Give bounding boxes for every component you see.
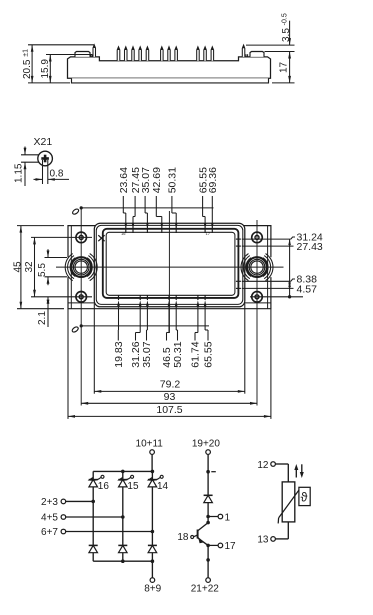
right screw column line [256, 220, 258, 406]
label 16 [98, 481, 110, 492]
svg-text:10+11: 10+11 [136, 438, 164, 449]
svg-text:35.07: 35.07 [140, 167, 152, 193]
svg-text:18: 18 [177, 532, 189, 543]
svg-text:69.36: 69.36 [207, 167, 219, 193]
node top rail junction c3 [151, 470, 155, 474]
dimension 45 (flange height) [12, 226, 64, 309]
mounting boss arcs left [65, 254, 97, 281]
right mounting hole [247, 257, 267, 277]
right leader 8.38 [242, 274, 317, 286]
svg-text:23.64: 23.64 [118, 167, 130, 193]
top view lid outline [103, 229, 239, 298]
terminal 8+9 [144, 561, 161, 594]
corner screw holes [76, 232, 262, 302]
wire rectifier column 3 [151, 471, 153, 561]
svg-text:93: 93 [164, 391, 176, 403]
body edge extension lines [68, 304, 271, 419]
svg-text:8+9: 8+9 [144, 583, 161, 594]
node terminal 1 junction [206, 515, 210, 519]
tiny pin number 16 [121, 231, 126, 236]
right leader 27.43 [242, 241, 323, 253]
side view tall right pin [242, 45, 245, 57]
dimension 17 (module height) [272, 52, 295, 83]
tiny pin number 17 [206, 231, 211, 236]
diode brake branch [204, 495, 213, 516]
side view pin X21 (tall left pin) [93, 45, 96, 57]
bottom row pin marks [119, 295, 206, 300]
svg-text:2.1: 2.1 [37, 311, 48, 325]
svg-text:21+22: 21+22 [191, 583, 220, 594]
top view module body outline [94, 223, 245, 307]
left screw column line [80, 208, 82, 406]
pin X21 position mark [98, 235, 104, 241]
terminal 1 [208, 512, 230, 523]
detail X21 label [34, 136, 53, 148]
svg-text:65.55: 65.55 [203, 341, 215, 367]
svg-text:17: 17 [225, 541, 237, 552]
svg-text:15: 15 [127, 481, 139, 492]
bottom screw centerline extension right [250, 296, 303, 298]
side view left connector bump [75, 52, 92, 57]
node 19+20 junction with tick [206, 470, 216, 474]
node terminal 17 junction [206, 544, 210, 548]
svg-text:50.31: 50.31 [167, 167, 179, 193]
right leader 4.57 [242, 283, 317, 295]
svg-text:15.9: 15.9 [40, 59, 51, 79]
terminal 6+7 [41, 527, 154, 538]
top ordinate leaders and labels [118, 167, 219, 229]
node top rail junction c2 [121, 470, 125, 474]
temperature arrows [294, 464, 304, 478]
svg-text:4.57: 4.57 [297, 283, 318, 295]
horizontal centerline through mounting holes [56, 266, 284, 268]
svg-text:14: 14 [157, 481, 169, 492]
svg-text:16: 16 [121, 231, 126, 236]
vertical centerline [168, 211, 170, 333]
svg-text:ϑ: ϑ [301, 490, 308, 504]
label 14 [157, 481, 169, 492]
terminal 13 [257, 522, 288, 546]
wire bottom rail of rectifier [93, 560, 152, 562]
bottom ordinate leaders and labels [113, 300, 215, 367]
terminal 19+20 [192, 438, 221, 495]
svg-text:19+20: 19+20 [192, 438, 221, 449]
diode rectifier low side 1 [89, 545, 98, 552]
side view right connector bump [246, 52, 264, 57]
terminal 2+3 [41, 497, 95, 508]
dimension 1.15 (pin cross height) [14, 147, 39, 187]
diode rectifier low side 2 [118, 545, 127, 552]
thyristor with gate 14 [147, 475, 163, 487]
svg-text:12: 12 [257, 460, 269, 471]
label 15 [127, 481, 139, 492]
svg-text:1: 1 [225, 512, 231, 523]
dimension 107.5 (flange width) [68, 404, 271, 418]
diode rectifier low side 3 [148, 545, 157, 552]
wire rectifier column 2 [122, 471, 124, 561]
top view flange outline [68, 226, 271, 309]
thyristor with gate 15 [117, 475, 133, 487]
svg-text:61.74: 61.74 [190, 341, 202, 367]
right vertical dimension line [288, 239, 291, 298]
thyristor with gate 16 [88, 475, 104, 487]
dimension 20.5 +/-1 (side view height) [22, 45, 94, 83]
left mounting hole [71, 257, 91, 277]
svg-text:27.43: 27.43 [297, 241, 323, 253]
dimension 2.1 [37, 297, 50, 327]
svg-text:16: 16 [98, 481, 110, 492]
svg-text:107.5: 107.5 [156, 404, 182, 416]
svg-text:32: 32 [24, 261, 35, 273]
svg-text:45: 45 [12, 261, 23, 273]
top row pin marks [126, 227, 213, 234]
svg-text:13: 13 [257, 535, 269, 546]
svg-text:1.15: 1.15 [14, 163, 25, 183]
label 18 [177, 532, 189, 543]
terminal 4+5 [41, 513, 125, 524]
dimension 93 (screw spacing) [81, 391, 257, 405]
NTC thermistor R1 [278, 482, 300, 524]
right leader 31.24 [242, 232, 323, 244]
svg-text:50.31: 50.31 [172, 341, 184, 367]
svg-text:19.83: 19.83 [113, 341, 125, 367]
side view signal/power pins [117, 47, 213, 61]
svg-text:42.69: 42.69 [151, 167, 163, 193]
dimension 3.5 -0.5 (pin stickout) [246, 13, 295, 51]
svg-text:5.5: 5.5 [37, 263, 48, 277]
svg-text:17: 17 [206, 231, 211, 236]
node bottom rail junction c3 [151, 559, 155, 563]
dimension 15.9 (body height) [40, 55, 92, 83]
right edge pin marks [236, 239, 241, 288]
svg-text:0.8: 0.8 [50, 169, 64, 180]
node bottom rail junction c2 [121, 559, 125, 563]
svg-text:6+7: 6+7 [41, 527, 58, 538]
terminal 12 [257, 460, 288, 482]
bottom ordinate origin 0 [71, 324, 209, 333]
terminal 21+22 [191, 578, 220, 595]
top ordinate origin 0 [72, 206, 214, 215]
wire top rail of rectifier [93, 470, 152, 472]
terminal 17 [208, 541, 236, 552]
theta box [299, 487, 310, 505]
dimension 32 (screw hole spacing) [24, 237, 92, 296]
svg-text:2+3: 2+3 [41, 497, 58, 508]
detail X21 pin cross-section [38, 151, 53, 166]
dimension 79.2 (body width) [94, 379, 245, 393]
svg-text:35.07: 35.07 [141, 341, 153, 367]
wire rectifier column 1 [92, 471, 94, 561]
terminal 10+11 [136, 438, 164, 471]
svg-text:4+5: 4+5 [41, 513, 58, 524]
side view module body outline [68, 57, 271, 83]
mounting boss arcs right [241, 254, 273, 281]
svg-text:17: 17 [279, 61, 290, 73]
transistor brake switch with base 18 [191, 517, 210, 546]
dimension 0.8 (pin cross width) [34, 160, 70, 184]
wire to terminal 21+22 [206, 545, 210, 577]
svg-text:79.2: 79.2 [160, 379, 181, 391]
svg-text:X21: X21 [34, 136, 53, 148]
dimension 5.5 (mounting hole) [37, 249, 67, 285]
